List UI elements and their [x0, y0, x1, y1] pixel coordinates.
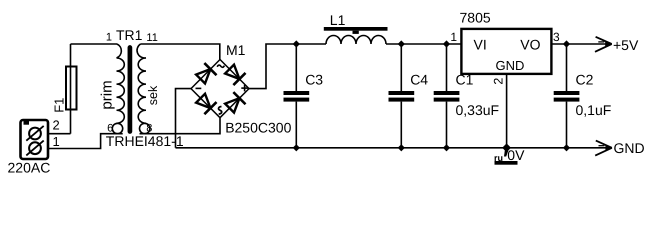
top rail from bridge to L1	[296, 43, 326, 45]
fuse F1	[51, 67, 76, 113]
bridge AC mark bottom tilde (rotated)	[219, 107, 222, 115]
bridge minus mark	[196, 87, 202, 89]
junction dot C2 bottom	[563, 144, 570, 151]
svg-text:M1: M1	[226, 42, 246, 58]
svg-text:C3: C3	[305, 72, 323, 88]
transformer TR1 secondary winding	[137, 44, 146, 123]
svg-text:0,1uF: 0,1uF	[576, 102, 612, 118]
diode D4 bottom-right edge	[225, 92, 245, 112]
svg-text:TR1: TR1	[116, 27, 143, 43]
junction dot 0V	[502, 143, 511, 152]
wire bridge minus to ground rail	[176, 89, 192, 148]
svg-text:+5V: +5V	[613, 37, 639, 53]
junction dot C1 bottom	[443, 144, 450, 151]
capacitor C4	[389, 44, 429, 148]
connector screw terminal pin 2	[26, 126, 43, 141]
ground rail	[176, 147, 612, 149]
svg-text:1: 1	[450, 30, 457, 44]
svg-text:GND: GND	[614, 140, 645, 156]
top rail 7805 to +5V	[551, 43, 612, 45]
svg-text:C2: C2	[576, 72, 594, 88]
svg-text:1: 1	[53, 134, 60, 149]
diode D2 top-right edge	[225, 65, 245, 85]
svg-text:L1: L1	[330, 12, 346, 28]
svg-text:B250C300: B250C300	[225, 120, 291, 136]
bridge rectifier M1 edges	[191, 60, 249, 118]
junction dot C4 bottom	[398, 144, 405, 151]
capacitor C3	[284, 44, 324, 148]
diode D1 top-left edge	[196, 63, 216, 83]
wire fuse top to transformer pin 1	[71, 43, 118, 45]
bridge plus mark	[241, 85, 248, 92]
terminal arrow GND	[595, 141, 612, 156]
junction dot C3 bottom	[293, 144, 300, 151]
svg-text:11: 11	[146, 32, 157, 44]
bridge AC mark top tilde	[217, 65, 224, 67]
svg-text:prim: prim	[98, 80, 115, 109]
wire transformer pin 11 to bridge top	[141, 44, 220, 60]
svg-text:2: 2	[53, 118, 60, 133]
wire connector pin2 to fuse riser	[48, 133, 71, 135]
capacitor C1	[434, 44, 499, 148]
wire 7805 GND pin to ground rail	[506, 74, 508, 148]
connector X1 220AC body	[21, 120, 49, 159]
wire bridge plus to top rail	[249, 44, 296, 89]
supply flag 0V	[494, 147, 525, 165]
top rail L1 to 7805	[386, 43, 461, 45]
svg-text:VI: VI	[474, 36, 487, 52]
terminal arrow +5V	[595, 37, 612, 52]
svg-text:3: 3	[553, 30, 560, 44]
svg-text:0,33uF: 0,33uF	[456, 102, 500, 118]
junction dot C4 top	[398, 40, 405, 47]
wire transformer pin 8 to bridge bottom	[140, 118, 221, 134]
svg-text:1: 1	[106, 32, 112, 44]
capacitor C2	[554, 44, 612, 148]
connector screw terminal pin 1	[26, 141, 43, 156]
svg-text:0V: 0V	[507, 147, 525, 163]
svg-text:sek: sek	[146, 85, 160, 105]
svg-text:TRHEI481-1: TRHEI481-1	[106, 133, 184, 149]
diode D3 bottom-left edge	[196, 94, 216, 114]
svg-text:220AC: 220AC	[8, 159, 51, 175]
inductor L1	[324, 12, 388, 44]
voltage regulator U1 7805	[460, 10, 552, 74]
svg-text:7805: 7805	[460, 10, 491, 26]
junction dot C3 top	[293, 40, 300, 47]
transformer TR1 core	[128, 48, 133, 132]
wire connector pin1 to transformer pin 6	[48, 134, 123, 149]
svg-text:C4: C4	[410, 72, 428, 88]
svg-text:GND: GND	[496, 58, 525, 73]
wire fuse riser vertical	[70, 44, 72, 134]
junction dot C1 top	[443, 40, 450, 47]
svg-text:VO: VO	[520, 36, 540, 52]
transformer TR1 primary winding	[117, 44, 125, 123]
svg-text:F1: F1	[51, 98, 66, 113]
svg-text:2: 2	[491, 78, 505, 85]
junction dot C2 top	[563, 40, 570, 47]
